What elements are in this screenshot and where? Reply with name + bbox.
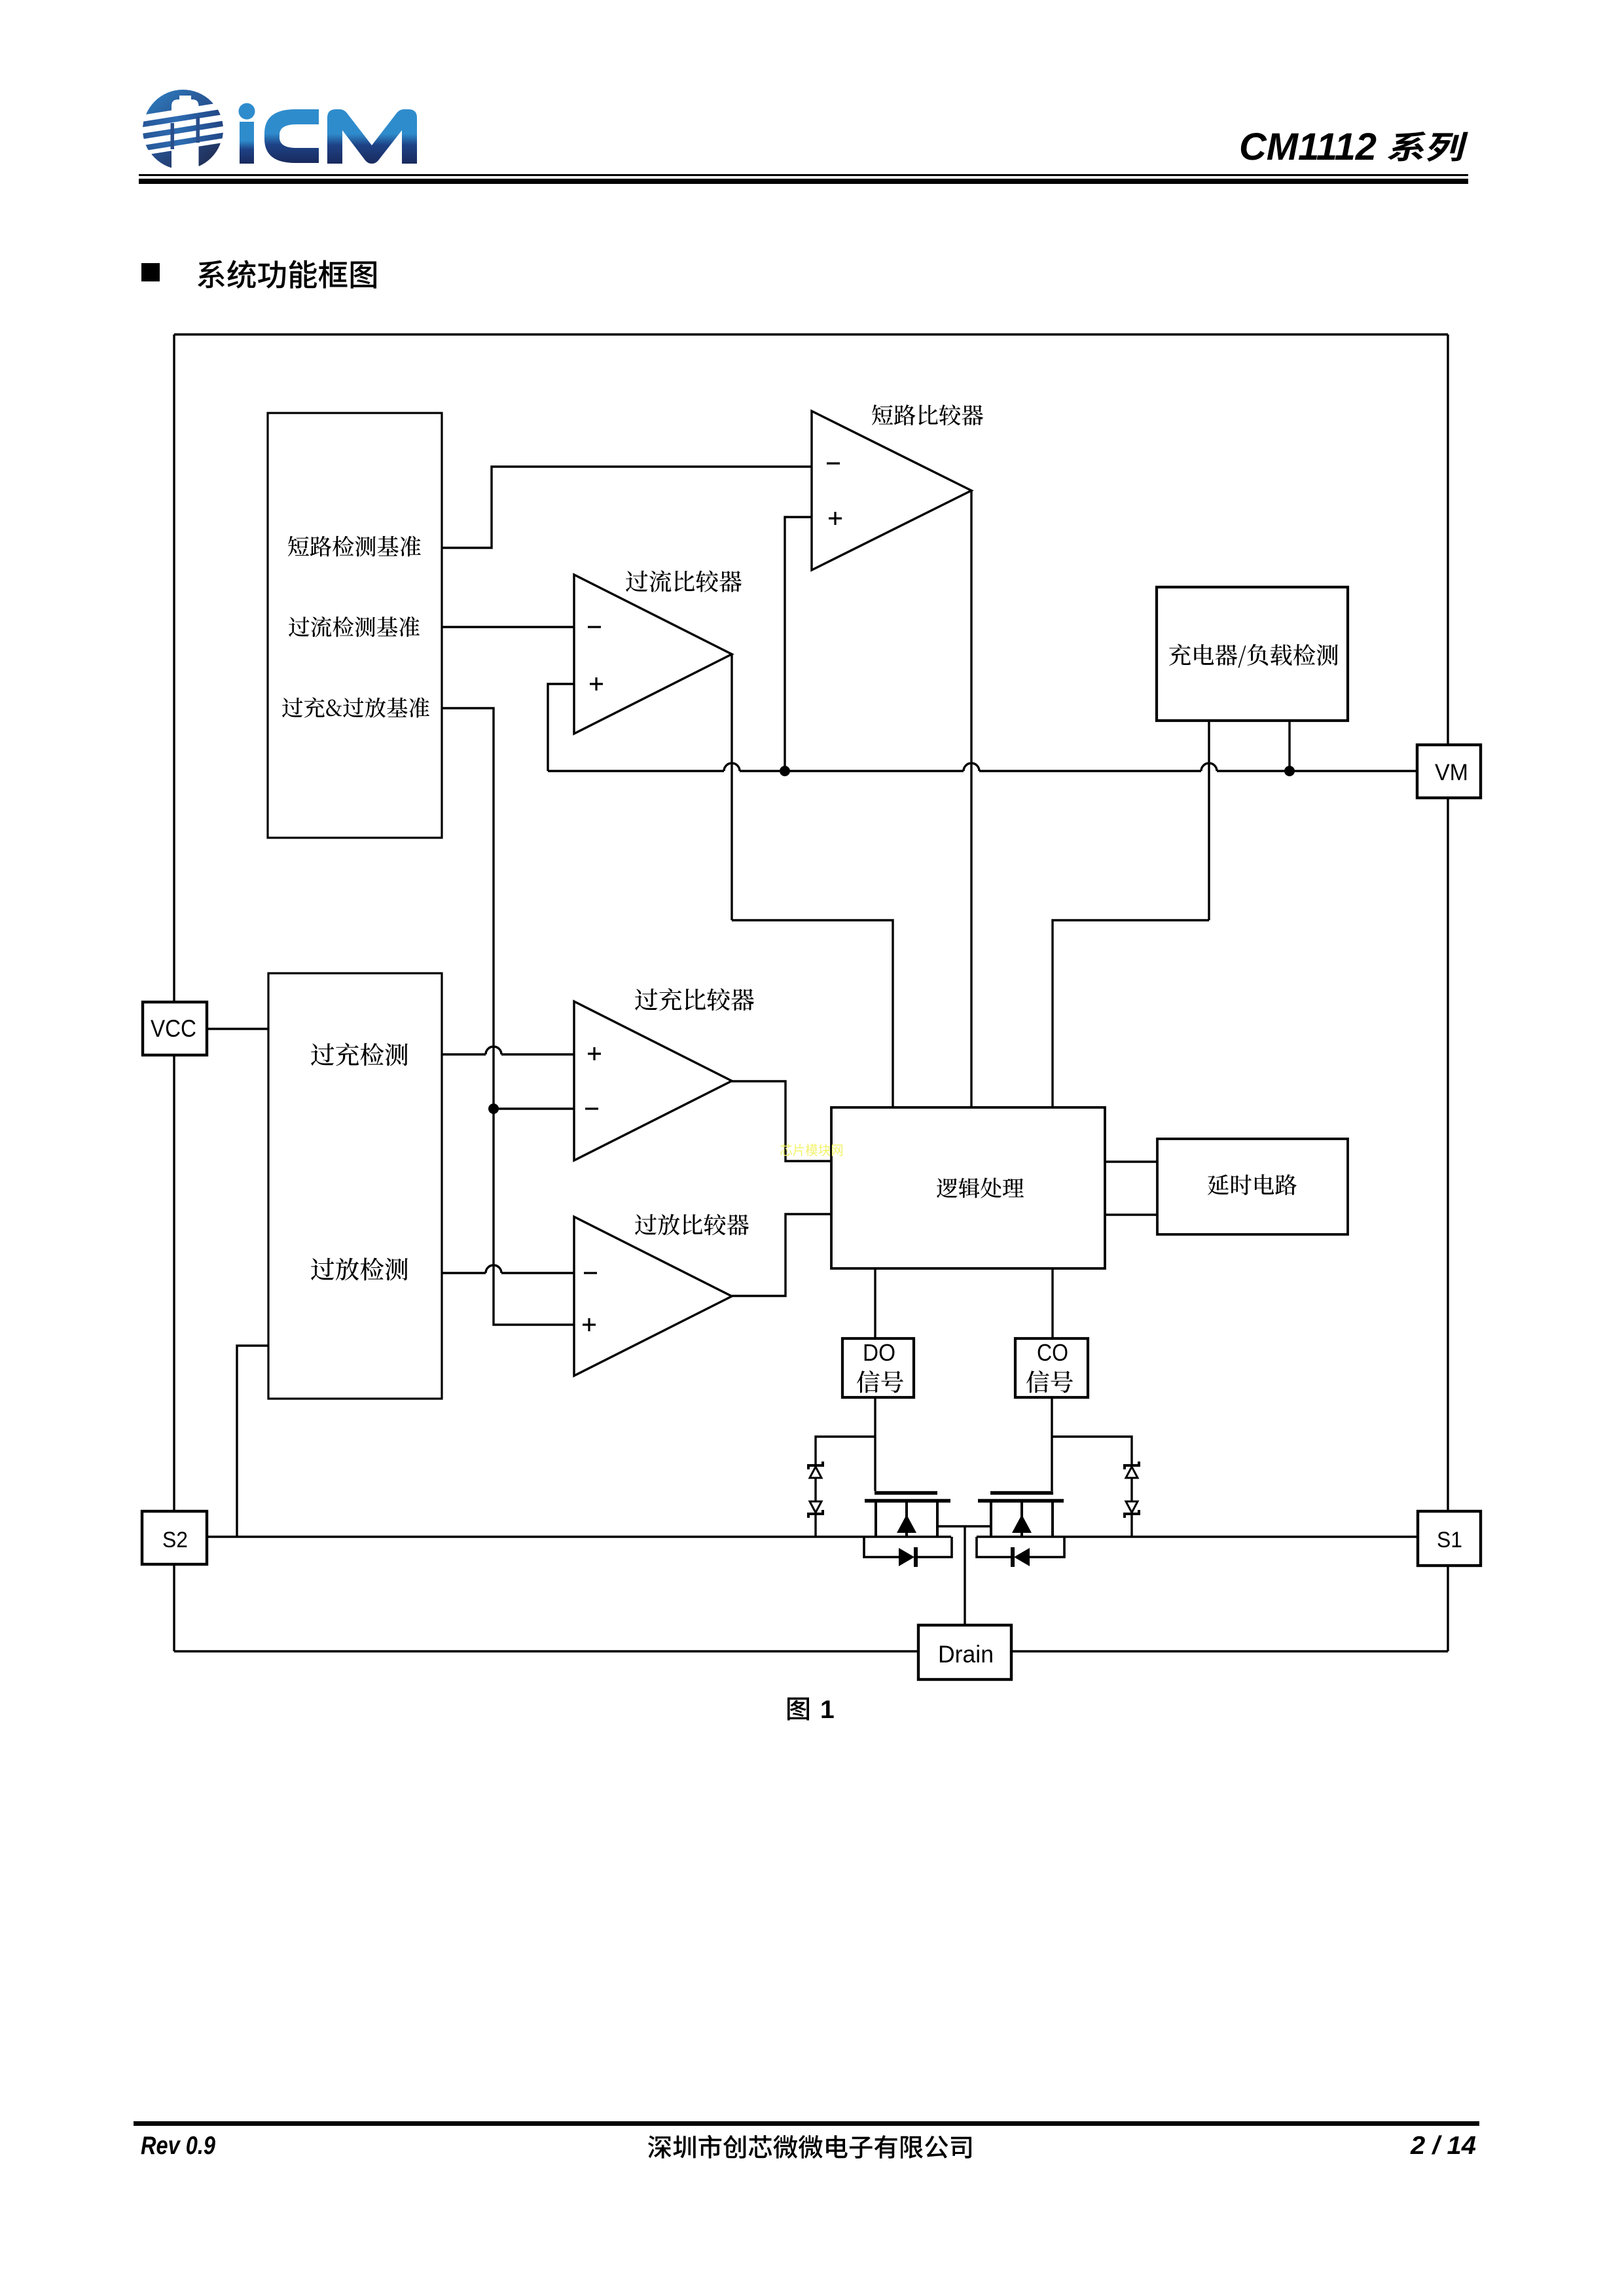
svg-text:Drain: Drain xyxy=(938,1641,994,1668)
svg-text:S2: S2 xyxy=(162,1528,188,1552)
svg-text:S1: S1 xyxy=(1437,1528,1462,1552)
svg-text:CO: CO xyxy=(1037,1339,1068,1366)
svg-text:Rev 0.9: Rev 0.9 xyxy=(141,2132,215,2160)
svg-text:DO: DO xyxy=(863,1339,895,1366)
svg-text:2 / 14: 2 / 14 xyxy=(1410,2132,1476,2160)
svg-text:1: 1 xyxy=(820,1696,835,1724)
svg-text:VM: VM xyxy=(1435,760,1468,785)
svg-text:VCC: VCC xyxy=(151,1015,196,1042)
svg-text:CM1112: CM1112 xyxy=(1239,126,1377,168)
